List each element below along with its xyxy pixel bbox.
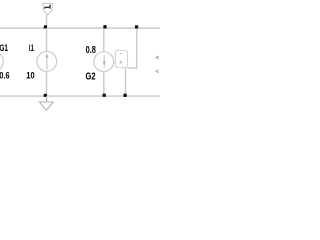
wire I1 top lead <box>46 28 48 52</box>
label 10 serif foot <box>27 77 30 78</box>
wire I1 bottom lead <box>46 71 48 96</box>
node dot bottom-left <box>44 94 47 97</box>
wire box right to top rail <box>128 28 137 68</box>
svg-text:G2: G2 <box>86 71 96 82</box>
wire bottom rail (ground net) <box>0 95 160 97</box>
svg-text:G1: G1 <box>0 42 8 53</box>
wire flag stub <box>46 15 48 28</box>
node dot bottom-middle <box>103 94 106 97</box>
current source I1 <box>37 52 57 72</box>
svg-text:0.8: 0.8 <box>86 45 97 56</box>
node dot top-left <box>44 25 47 28</box>
wire G2 bottom lead <box>103 72 105 97</box>
chevron lower (cut component at right edge) <box>156 70 159 73</box>
net flag 1 <box>43 3 52 15</box>
wire G2 top lead <box>103 28 105 52</box>
VCCS G1 (cut off at left edge) <box>0 52 3 72</box>
node dot top-middle <box>103 25 106 28</box>
ground <box>39 96 53 110</box>
chevron upper (cut component at right edge) <box>156 56 159 59</box>
controlled source body (box with polarity) <box>115 51 127 68</box>
label I1 serif foot <box>31 50 34 51</box>
wire box bottom lead <box>125 68 127 97</box>
VCCS G2 <box>94 52 114 72</box>
svg-text:0.6: 0.6 <box>0 69 10 80</box>
label G1 serif foot <box>5 50 8 51</box>
node dot bottom-right <box>123 94 126 97</box>
wire top rail (net 1) <box>0 27 160 29</box>
svg-text:10: 10 <box>26 69 34 80</box>
node dot top-right <box>135 25 138 28</box>
svg-text:1: 1 <box>31 42 34 53</box>
